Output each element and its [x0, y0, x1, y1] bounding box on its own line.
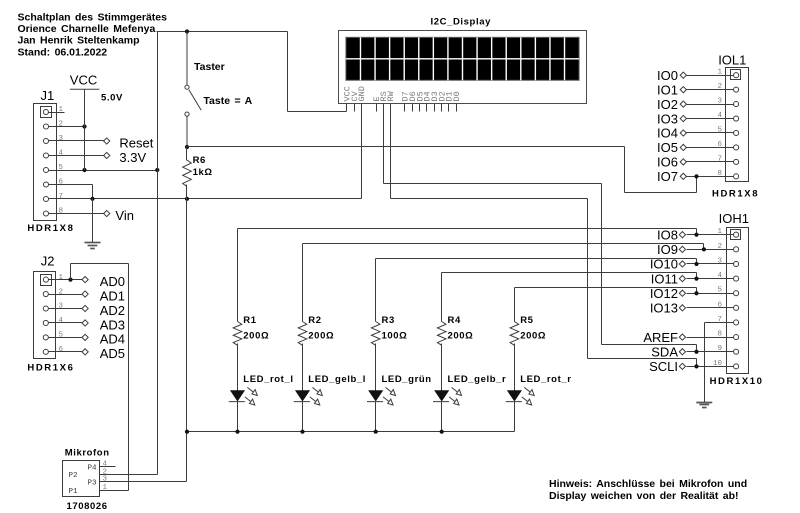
wire IO8 to IOH1 pin1	[687, 234, 734, 236]
connector J2 body	[34, 272, 56, 359]
resistor R2	[298, 322, 307, 346]
svg-text:100Ω: 100Ω	[382, 331, 408, 342]
junction pin5 / left VCC rail	[155, 168, 159, 172]
wire IO13 to IOH1 pin6	[687, 307, 734, 309]
J1 pin 7 circle	[43, 196, 48, 201]
J1 pin 2 circle	[43, 124, 48, 129]
resistor R4	[437, 322, 446, 346]
J2 pin 6 circle	[43, 349, 48, 354]
svg-text:R4: R4	[448, 315, 461, 326]
svg-text:IO5: IO5	[657, 140, 678, 155]
svg-text:LED_gelb_r: LED_gelb_r	[448, 374, 507, 385]
wire down to SCLI row	[696, 359, 698, 367]
node AREF diamond	[679, 334, 685, 340]
display pin stub D7	[404, 104, 406, 112]
wire down to SDA row	[696, 345, 698, 352]
node IO8 diamond	[679, 232, 685, 238]
J2 pin 4 circle	[43, 320, 48, 325]
ground symbol (J1)	[85, 243, 101, 249]
node IO1 diamond	[680, 87, 686, 93]
junction AD0 / Mikrofon wire	[68, 278, 72, 282]
wire IO12 feed horizontal	[515, 287, 697, 289]
wire Taster node to right	[187, 146, 625, 148]
svg-text:3: 3	[717, 257, 722, 265]
svg-text:1: 1	[103, 484, 108, 492]
svg-text:IO12: IO12	[650, 286, 678, 301]
svg-text:AD3: AD3	[100, 317, 125, 332]
junction LED rail	[300, 430, 304, 434]
svg-text:Hinweis: Anschlüsse bei Mikrof: Hinweis: Anschlüsse bei Mikrofon und	[549, 478, 747, 490]
node IO12 diamond	[679, 290, 685, 296]
svg-text:3: 3	[58, 135, 63, 143]
svg-text:1: 1	[58, 274, 63, 282]
display pin stub D1	[448, 104, 450, 112]
wire LED cathode down	[441, 402, 443, 432]
wire J1 pin4 to 3.3V	[49, 155, 104, 157]
wire IO2 to IOL1 pin3	[687, 104, 734, 106]
wire RS to SDA branch	[602, 344, 697, 346]
svg-text:3: 3	[58, 303, 63, 311]
svg-text:R6: R6	[193, 155, 206, 166]
svg-text:IO8: IO8	[657, 227, 678, 242]
wire IO1 to IOL1 pin2	[687, 89, 734, 91]
display pin stub E	[376, 104, 378, 112]
svg-text:AD0: AD0	[100, 274, 125, 289]
node 3.3V diamond	[104, 152, 110, 158]
wire IO7 to IOL1 pin8	[687, 176, 734, 178]
wire up to IO7 row	[696, 177, 698, 193]
wire down to R1	[237, 229, 239, 322]
svg-text:4: 4	[58, 317, 63, 325]
junction IO8	[694, 233, 698, 237]
svg-text:AD2: AD2	[100, 303, 125, 318]
wire J1 pin6 down to pin7 row	[92, 185, 94, 199]
wire down	[624, 147, 626, 193]
IOL1 pin 6 circle	[734, 145, 739, 150]
svg-text:1kΩ: 1kΩ	[193, 167, 213, 178]
svg-text:6: 6	[58, 179, 63, 187]
ground symbol (IOH1)	[696, 402, 712, 407]
svg-text:5: 5	[58, 332, 63, 340]
svg-text:RW: RW	[386, 90, 396, 101]
svg-text:HDR1X8: HDR1X8	[712, 189, 759, 200]
wire IO9 feed down	[703, 244, 705, 250]
svg-text:IO3: IO3	[657, 111, 678, 126]
IOL1 pin 4 circle	[734, 116, 739, 121]
node IO6 diamond	[680, 159, 686, 165]
wire Mikrofon P3	[100, 481, 187, 483]
wire RW right	[391, 198, 588, 200]
wire IO0 to IOL1 pin1	[687, 75, 734, 77]
J2 pin 2 circle	[43, 292, 48, 297]
IOH1 pin 1 square	[731, 230, 741, 240]
wire J2 pin5 to AD4	[49, 337, 83, 339]
J1 pin 1 square	[41, 107, 52, 118]
svg-text:IO0: IO0	[657, 68, 678, 83]
wire IO3 to IOL1 pin4	[687, 118, 734, 120]
junction pin5 / VCC rail	[82, 168, 86, 172]
wire display VCC stub	[346, 104, 348, 112]
svg-text:LED_gelb_l: LED_gelb_l	[308, 374, 366, 385]
node IO9 diamond	[679, 246, 685, 252]
svg-text:LED_rot_l: LED_rot_l	[243, 374, 293, 385]
node IO0 diamond	[680, 72, 686, 78]
IOL1 pin 8 circle	[734, 174, 739, 179]
node IO13 diamond	[679, 305, 685, 311]
svg-text:IO2: IO2	[657, 97, 678, 112]
wire RS right	[384, 183, 602, 185]
wire J2 pin4 to AD3	[49, 322, 83, 324]
display pin stub D6	[412, 104, 414, 112]
wire J1 pin5 to VCC net	[49, 170, 158, 172]
IOH1 pin 8 circle	[734, 335, 739, 340]
resistor R3	[371, 322, 380, 346]
junction IO11	[694, 276, 698, 280]
svg-text:SDA: SDA	[651, 344, 678, 359]
node IO2 diamond	[680, 101, 686, 107]
svg-text:IO11: IO11	[651, 271, 678, 286]
svg-text:AD4: AD4	[100, 332, 125, 347]
node AD2 diamond	[82, 305, 88, 311]
node Reset diamond	[104, 138, 110, 144]
wire IO5 to IOL1 pin6	[687, 147, 734, 149]
wire J1 pin8 to Vin	[49, 213, 104, 215]
wire GND row J1 pin7 to display GND	[49, 198, 362, 200]
wire IO12 feed down	[696, 288, 698, 294]
IOH1 pin 7 circle	[734, 320, 739, 325]
wire LED common bottom rail	[187, 431, 515, 433]
LED LED_gelb_r	[433, 387, 462, 405]
wire Mikrofon P4	[100, 466, 116, 468]
wire right to IO7 branch	[625, 192, 697, 194]
J1 pin 8 circle	[43, 211, 48, 216]
svg-text:200Ω: 200Ω	[520, 331, 546, 342]
wire R1 to LED	[237, 344, 239, 391]
node SDA diamond	[679, 349, 685, 355]
svg-text:D0: D0	[452, 91, 462, 101]
wire to display VCC pin	[288, 111, 347, 113]
svg-text:J2: J2	[41, 254, 55, 269]
svg-text:3.3V: 3.3V	[119, 150, 146, 165]
svg-text:IO13: IO13	[650, 301, 678, 316]
svg-text:6: 6	[717, 301, 722, 309]
node SCLI diamond	[679, 363, 685, 369]
wire to ground (J1)	[92, 199, 94, 243]
IOH1 pin 6 circle	[734, 305, 739, 310]
wire IO11 feed horizontal	[442, 272, 697, 274]
junction Taster / R6 / IO7 wire	[185, 145, 189, 149]
wire J2 pin1 to AD0	[49, 279, 83, 281]
svg-text:P3: P3	[87, 479, 97, 487]
svg-text:5.0V: 5.0V	[101, 93, 123, 104]
display pin stub D3	[434, 104, 436, 112]
J2 pin 5 circle	[43, 335, 48, 340]
connector IOL1 body	[726, 68, 749, 182]
junction J1 pin2 / VCC rail	[82, 124, 86, 128]
wire RS down right side	[601, 184, 603, 345]
J1 pin 5 circle	[43, 167, 48, 172]
wire SDA to IOH1 pin9	[687, 351, 734, 353]
svg-text:HDR1X10: HDR1X10	[710, 376, 764, 387]
svg-text:200Ω: 200Ω	[243, 331, 269, 342]
svg-text:GND: GND	[357, 86, 367, 101]
wire display RW down	[390, 112, 392, 199]
svg-text:IOL1: IOL1	[718, 53, 746, 68]
IOH1 pin 10 circle	[734, 364, 739, 369]
wire IO10 feed down	[696, 259, 698, 264]
svg-text:R2: R2	[308, 315, 321, 326]
wire J1 pin1 stub	[49, 112, 65, 114]
node AD0 diamond	[82, 277, 88, 283]
display pin stub D4	[426, 104, 428, 112]
microphone Mikrofon body	[63, 461, 100, 497]
junction GND row / R6 rail	[185, 197, 189, 201]
svg-text:Taste = A: Taste = A	[203, 95, 252, 107]
wire IO4 to IOL1 pin5	[687, 132, 734, 134]
svg-text:IO7: IO7	[657, 169, 678, 184]
display pin stub D5	[419, 104, 421, 112]
svg-text:200Ω: 200Ω	[448, 331, 474, 342]
wire IOH1 pin7 left	[705, 322, 734, 324]
svg-text:4: 4	[58, 150, 63, 158]
wire IO12 to IOH1 pin5	[687, 293, 734, 295]
IOH1 pin 2 circle	[734, 247, 739, 252]
wire AD0 down to Mikrofon P1	[128, 264, 130, 491]
svg-text:R3: R3	[382, 315, 395, 326]
svg-text:SCLI: SCLI	[649, 359, 678, 374]
svg-text:8: 8	[58, 208, 63, 216]
resistor R1	[233, 322, 242, 346]
wire LED cathode down	[514, 402, 516, 432]
svg-text:Orience Charnelle Mefenya: Orience Charnelle Mefenya	[18, 23, 156, 35]
wire J2 pin6 to AD5	[49, 351, 83, 353]
LED LED_grün	[367, 387, 396, 405]
svg-text:Reset: Reset	[119, 135, 153, 150]
svg-text:2: 2	[58, 121, 63, 129]
node AD4 diamond	[82, 334, 88, 340]
node IO4 diamond	[680, 130, 686, 136]
wire LED cathode down	[375, 402, 377, 432]
wire down to R4	[441, 273, 443, 322]
svg-text:Vin: Vin	[115, 208, 134, 223]
svg-text:LED_rot_r: LED_rot_r	[520, 374, 571, 385]
svg-text:VCC: VCC	[70, 73, 97, 88]
wire Mikrofon P1	[100, 490, 129, 492]
svg-text:2: 2	[58, 288, 63, 296]
IOL1 pin 2 circle	[734, 87, 739, 92]
svg-text:R5: R5	[520, 315, 533, 326]
LED LED_rot_r	[506, 387, 535, 405]
svg-text:P1: P1	[68, 488, 78, 496]
svg-text:9: 9	[717, 345, 722, 353]
display pin stub GND	[361, 104, 363, 112]
display pin stub RW	[390, 104, 392, 112]
wire IO8 feed down	[696, 229, 698, 235]
wire R4 to LED	[441, 344, 443, 391]
svg-text:Schaltplan des Stimmgerätes: Schaltplan des Stimmgerätes	[18, 11, 168, 23]
IOL1 pin 3 circle	[734, 102, 739, 107]
svg-text:P2: P2	[68, 472, 77, 480]
junction IO9	[702, 247, 706, 251]
svg-text:200Ω: 200Ω	[308, 331, 334, 342]
wire VCC top horizontal	[157, 31, 288, 33]
wire down to R3	[375, 259, 377, 322]
J1 pin 6 circle	[43, 182, 48, 187]
junction SDA	[694, 350, 698, 354]
wire J1 pin3 to Reset	[49, 140, 104, 142]
wire J2 pin2 to AD1	[49, 294, 83, 296]
junction LED rail	[374, 430, 378, 434]
svg-text:IO4: IO4	[657, 126, 678, 141]
wire LED cathode down	[302, 402, 304, 432]
node AD1 diamond	[82, 291, 88, 297]
IOH1 pin 3 circle	[734, 261, 739, 266]
wire SCLI to IOH1 pin10	[687, 366, 734, 368]
wire R6 top lead	[186, 147, 188, 161]
wire J1 pin2 to VCC rail	[49, 126, 85, 128]
display LCD cell matrix	[346, 37, 579, 80]
wire IOH1 pin7 down to ground	[704, 323, 706, 403]
wire Mikrofon P2	[100, 474, 158, 476]
svg-text:IOH1: IOH1	[719, 211, 749, 226]
wire RW to SCLI branch	[588, 358, 697, 360]
display pin stub VCC	[346, 104, 348, 112]
LED LED_gelb_l	[294, 387, 323, 405]
wire AD0 over J2	[71, 263, 129, 265]
power VCC symbol	[70, 73, 100, 170]
svg-text:Taster: Taster	[194, 61, 225, 73]
svg-text:AD1: AD1	[100, 288, 125, 303]
svg-text:IO6: IO6	[657, 155, 678, 170]
svg-text:LED_grün: LED_grün	[382, 374, 432, 385]
wire down to R2	[302, 244, 304, 322]
wire IO11 to IOH1 pin4	[687, 278, 734, 280]
switch Taster	[185, 32, 201, 148]
junction IO7 / Taster wire	[694, 174, 698, 178]
junction IO12	[694, 291, 698, 295]
node AD3 diamond	[82, 320, 88, 326]
junction pin6/pin7	[90, 197, 94, 201]
resistor R6	[183, 160, 192, 187]
junction top wire / Taster	[185, 29, 189, 33]
J1 pin 4 circle	[43, 153, 48, 158]
svg-text:6: 6	[58, 346, 63, 354]
svg-text:IO1: IO1	[657, 82, 678, 97]
wire IO8 feed horizontal	[238, 228, 697, 230]
IOH1 pin 4 circle	[734, 276, 739, 281]
display pin stub D0	[456, 104, 458, 112]
wire down to display VCC	[287, 32, 289, 112]
node IO5 diamond	[680, 144, 686, 150]
wire display GND down to GND row	[361, 112, 363, 199]
svg-text:I2C_Display: I2C_Display	[431, 17, 492, 28]
wire IO9 to IOH1 pin2	[687, 249, 734, 251]
wire AD0 up	[70, 264, 72, 280]
wire LED cathode down	[237, 402, 239, 432]
svg-text:HDR1X6: HDR1X6	[27, 362, 74, 373]
connector J1 body	[34, 104, 57, 221]
wire R2 to LED	[302, 344, 304, 391]
J2 pin 1 square	[41, 275, 52, 286]
wire IO9 feed horizontal	[303, 243, 704, 245]
svg-text:5: 5	[717, 127, 722, 135]
wire GND rail to Mikrofon P3	[186, 432, 188, 482]
wire J1 pin6	[49, 184, 93, 186]
wire R5 to LED	[514, 344, 516, 391]
IOH1 pin 9 circle	[734, 349, 739, 354]
J2 pin 3 circle	[43, 306, 48, 311]
junction LED rail	[440, 430, 444, 434]
junction SCLI	[694, 364, 698, 368]
svg-text:Stand: 06.01.2022: Stand: 06.01.2022	[18, 46, 108, 58]
node IO11 diamond	[679, 275, 685, 281]
svg-text:AREF: AREF	[643, 330, 678, 345]
svg-text:J1: J1	[41, 88, 55, 103]
svg-text:AD5: AD5	[100, 346, 125, 361]
IOL1 pin 5 circle	[734, 130, 739, 135]
connector IOH1 body	[727, 228, 749, 374]
node AD5 diamond	[82, 349, 88, 355]
svg-text:3: 3	[103, 476, 108, 484]
junction IO10	[694, 262, 698, 266]
wire IO11 feed down	[696, 273, 698, 279]
svg-text:1708026: 1708026	[67, 501, 108, 512]
svg-text:HDR1X8: HDR1X8	[27, 223, 74, 234]
svg-text:Display weichen von der Realit: Display weichen von der Realität ab!	[549, 490, 739, 502]
wire IO6 to IOL1 pin7	[687, 161, 734, 163]
title text block	[18, 11, 168, 58]
svg-text:Jan Henrik Steltenkamp: Jan Henrik Steltenkamp	[18, 35, 140, 47]
wire IO10 feed horizontal	[376, 258, 697, 260]
display pin stub D2	[441, 104, 443, 112]
svg-text:IO9: IO9	[657, 242, 678, 257]
wire R3 to LED	[375, 344, 377, 391]
svg-text:Mikrofon: Mikrofon	[65, 447, 110, 458]
wire display RS down	[383, 112, 385, 184]
display pin stub CV	[354, 104, 356, 112]
wire IO10 to IOH1 pin3	[687, 263, 734, 265]
node Vin diamond	[104, 210, 110, 216]
resistor R5	[510, 322, 519, 346]
wire R6 bottom / GND rail down	[186, 185, 188, 432]
svg-text:P4: P4	[87, 465, 97, 473]
wire J2 pin3 to AD2	[49, 308, 83, 310]
wire RW down right side	[587, 199, 589, 359]
IOL1 pin 7 circle	[734, 159, 739, 164]
svg-text:7: 7	[58, 193, 63, 201]
node IO10 diamond	[679, 261, 685, 267]
note text Hinweis	[549, 478, 747, 502]
wire AREF to IOH1 pin8	[687, 337, 734, 339]
LED LED_rot_l	[229, 387, 257, 405]
junction rail / GND rail	[185, 430, 189, 434]
svg-text:R1: R1	[243, 315, 256, 326]
J1 pin 3 circle	[43, 138, 48, 143]
IOL1 pin 1 square	[731, 70, 741, 80]
node IO3 diamond	[680, 115, 686, 121]
node IO7 diamond	[680, 173, 686, 179]
junction LED rail	[235, 430, 239, 434]
IOH1 pin 5 circle	[734, 291, 739, 296]
display pin stub RS	[383, 104, 385, 112]
wire down to R5	[514, 288, 516, 322]
svg-text:7: 7	[717, 155, 722, 163]
display I2C_Display body	[339, 31, 587, 104]
wire left VCC rail vertical	[157, 32, 159, 475]
